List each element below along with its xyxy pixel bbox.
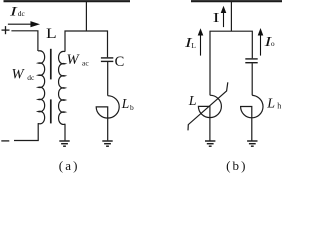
svg-text:o: o [271, 39, 275, 48]
svg-text:W: W [67, 52, 81, 68]
svg-text:L: L [46, 26, 57, 41]
svg-text:ac: ac [82, 58, 89, 67]
svg-text:L: L [188, 94, 197, 109]
svg-text:(b): (b) [226, 158, 247, 173]
svg-text:I: I [213, 10, 220, 25]
svg-text:L: L [266, 97, 275, 112]
svg-text:W: W [12, 67, 26, 83]
svg-text:dc: dc [27, 73, 35, 82]
svg-text:C: C [115, 54, 125, 70]
svg-text:L: L [191, 41, 196, 50]
svg-text:h: h [277, 101, 281, 110]
svg-text:b: b [130, 103, 134, 112]
svg-text:(a): (a) [59, 158, 80, 173]
svg-text:L: L [121, 96, 130, 111]
svg-text:dc: dc [18, 9, 26, 18]
